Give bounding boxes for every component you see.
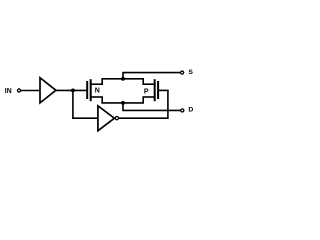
wire to S terminal xyxy=(122,72,180,74)
wire to inverter input xyxy=(72,117,98,119)
wire left step bottom xyxy=(101,96,103,103)
svg-text:P: P xyxy=(144,89,149,96)
wire right step bottom xyxy=(142,96,144,103)
wire Q2 top lead xyxy=(143,83,155,85)
transistor Q2 PMOS gate bar xyxy=(157,81,159,99)
wire Q1 bottom lead xyxy=(91,96,103,98)
wire PMOS gate lead xyxy=(158,89,169,91)
wire buffer to NMOS gate xyxy=(56,89,87,91)
wire A down xyxy=(72,90,74,118)
svg-text:IN: IN xyxy=(5,88,12,95)
transistor Q1 NMOS gate bar xyxy=(86,81,88,99)
svg-text:N: N xyxy=(95,88,100,95)
junction top rail xyxy=(121,77,125,81)
wire stub down to D line xyxy=(122,103,124,111)
wire Q2 bottom lead xyxy=(143,96,155,98)
junction A xyxy=(71,88,75,92)
wire up to PMOS gate xyxy=(167,90,169,119)
wire IN to buffer xyxy=(21,90,40,92)
transistor Q2 PMOS channel bar xyxy=(154,79,156,101)
wire left step top xyxy=(101,79,103,85)
inverter U2 xyxy=(98,106,115,131)
wire right step top xyxy=(142,79,144,85)
wire bottom rail xyxy=(101,102,144,104)
wire Q1 top lead xyxy=(91,83,103,85)
wire to D terminal xyxy=(122,109,180,111)
wire stub up to S line xyxy=(122,73,124,79)
terminal D xyxy=(181,109,184,112)
transistor Q1 NMOS channel bar xyxy=(90,79,92,101)
inverter bubble xyxy=(115,117,118,120)
buffer U1 xyxy=(40,78,56,103)
svg-text:D: D xyxy=(188,107,193,114)
junction bottom rail xyxy=(121,101,125,105)
svg-text:S: S xyxy=(188,69,193,76)
wire top rail xyxy=(101,78,144,80)
terminal IN xyxy=(17,89,20,92)
terminal S xyxy=(181,71,184,74)
wire inverter output xyxy=(119,117,168,119)
